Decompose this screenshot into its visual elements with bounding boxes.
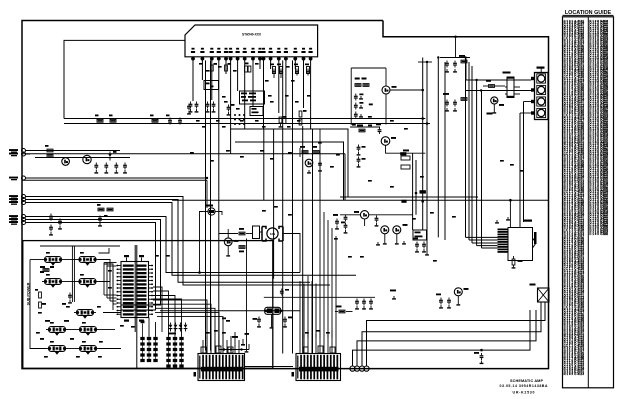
wires into connector CN602 <box>299 338 301 354</box>
sub power resistors column <box>39 292 42 298</box>
wire bus y142 below IC <box>235 142 344 200</box>
speaker wire bundle right <box>367 302 546 366</box>
wire bus y129 below IC <box>231 129 348 197</box>
component cluster x403 y160 <box>401 156 410 160</box>
wire right verticals x438 x445 <box>437 58 439 238</box>
wire y178 pair <box>26 177 208 179</box>
ground symbols Q502 Q503 <box>377 242 379 244</box>
capacitor C mid cluster <box>207 102 209 104</box>
capacitor cluster below IC pin1 <box>190 102 192 104</box>
electrolytic capacitors C pair 1 <box>273 69 275 71</box>
resistor R below pin3 <box>210 65 213 71</box>
wire bus y200 <box>172 199 549 201</box>
resistor cluster x360 y128 <box>359 129 365 132</box>
IC U301 decoupling marks top <box>124 255 129 257</box>
input port group3 pin2 <box>22 218 26 222</box>
transistor Q502 <box>381 226 389 234</box>
transistor Q601 <box>491 97 498 104</box>
ground pair right mid <box>496 220 498 222</box>
resistor R601 <box>489 85 495 88</box>
wire verticals connector2 area <box>299 281 301 338</box>
wire vertical through IC <box>134 245 136 332</box>
sub power wires <box>40 245 120 247</box>
capacitor trio x355-372 y300 <box>356 299 358 301</box>
regulator IC U601 tall box <box>507 78 514 98</box>
wire y310.8 between connectors <box>160 310 300 312</box>
wire right verticals x465-481 jack bundle <box>465 58 467 238</box>
svg-text:03.05.14 3954R1438BA: 03.05.14 3954R1438BA <box>500 384 548 388</box>
resistor array group B <box>166 337 170 340</box>
wire right top section <box>483 85 489 87</box>
transistor Q503 <box>393 226 401 234</box>
sub power small parts left column <box>40 266 45 268</box>
svg-text:R185: R185 <box>564 372 574 376</box>
wire y233 right of fan <box>283 234 300 273</box>
headphone jack JK701 <box>508 228 533 261</box>
fan motor M401 <box>262 227 266 230</box>
capacitor C input row <box>95 163 97 165</box>
electrolytic capacitors C pair 2 <box>296 69 298 71</box>
transistor pair group2 <box>79 257 96 263</box>
component on vertical x422 y192 <box>420 190 426 193</box>
resistor array group A <box>140 337 144 340</box>
capacitor C y213 cluster <box>50 214 52 216</box>
capacitor cluster top right B <box>446 100 448 102</box>
wire x412 pair <box>412 153 414 230</box>
transistor pair group5 <box>77 310 94 316</box>
capacitor cluster top right A <box>446 61 448 63</box>
resistor marks row y77-83 <box>355 78 360 80</box>
resistor R fan <box>239 232 245 235</box>
ground symbol near CN601 <box>242 339 244 344</box>
resistor R vertical right2 <box>299 111 302 117</box>
connector CN701 4pin <box>535 73 549 120</box>
capacitor C y219 mid <box>99 216 101 218</box>
wire right verticals from bus y118 <box>422 58 424 231</box>
input port group2 pin3 <box>22 201 26 205</box>
wire IC left boundary loop <box>64 40 185 118</box>
input port group2 pin1 <box>22 195 26 199</box>
capacitor C mid cluster base <box>345 215 347 217</box>
resistor R jack bottom <box>512 259 515 265</box>
wire y153.8 turn down to 200 <box>344 154 346 200</box>
capacitor boxes above CN602 <box>303 347 308 353</box>
wire horizontal y150.5 from port <box>26 150 121 152</box>
resistor R input <box>47 155 53 158</box>
wire jack top to bus y200 <box>509 200 511 227</box>
capacitors below y310.8 wire <box>258 317 260 319</box>
blob on bus y200 <box>401 200 406 203</box>
svg-text:FAN: FAN <box>270 232 275 236</box>
IC U101 pin junction dots <box>191 57 195 61</box>
location guide table frame <box>563 17 614 388</box>
sub circuit block with labels <box>240 91 265 104</box>
svg-text:STA540-XXX: STA540-XXX <box>242 33 262 37</box>
svg-text:SCHEMATIC AMP: SCHEMATIC AMP <box>510 379 543 383</box>
svg-text:C-4182: C-4182 <box>600 232 608 236</box>
wire horizontal y157.5 <box>35 157 130 159</box>
resistor blob on y153.8 wire <box>400 152 406 155</box>
wire bundle staircase lower turns <box>121 262 156 310</box>
connector CN602 mounting mark <box>292 372 295 377</box>
transistor pair group8 <box>49 346 66 352</box>
resistor R vertical right1 <box>279 117 282 123</box>
wires into connector CN601 <box>202 340 204 354</box>
wire horizontal bus y118-123 <box>64 118 425 120</box>
wire y68 top of upper mid cluster <box>351 67 386 69</box>
wires IC U301 left pins to bundle <box>104 294 117 296</box>
schematic sheet border <box>22 21 549 369</box>
IC U301 bottom marks <box>124 320 129 322</box>
input port AUX-L <box>22 149 26 153</box>
ground Q601 <box>493 104 495 110</box>
wire bus y197 <box>340 196 478 198</box>
sub circuit block 2 <box>250 107 263 116</box>
sub power vertical wires <box>71 246 73 302</box>
component box x413 y230 <box>413 230 427 240</box>
component cluster x335 y215 <box>333 214 338 216</box>
diode row above array B <box>169 325 173 328</box>
wire relay drop to ground <box>246 239 248 350</box>
capacitor boxes above CN601 <box>201 347 206 353</box>
relay RY401 box <box>253 226 260 239</box>
wire staircase CN601 feeds from IC U301 <box>153 300 207 354</box>
wire CN701 stub <box>540 68 542 73</box>
wire horizontal above CN601 with dots <box>219 349 249 351</box>
dual resistor component on y310.8 <box>265 307 281 314</box>
dot matrix component x234-244 y114-126 <box>234 114 236 116</box>
resistor pair below pin7 <box>245 66 248 72</box>
wire Q404 emitter down <box>385 94 387 125</box>
input port GND <box>22 176 26 180</box>
sub power nested wires right <box>99 248 110 253</box>
wire horizontal y153.8 long <box>22 153 345 155</box>
svg-text:UR-K2530: UR-K2530 <box>513 391 535 395</box>
transistor pair group7 <box>80 327 97 333</box>
input port group3 pin3 <box>22 221 26 225</box>
input port AUX-R <box>22 152 26 156</box>
microcontroller IC U301 vertical DIP <box>121 262 149 318</box>
wire verticals x520 x523 from CN701 to jack <box>519 113 521 228</box>
transistor Q402 fan driver <box>224 238 232 246</box>
component R x340 y310 <box>339 310 345 313</box>
capacitor C Q501 <box>376 216 378 218</box>
capacitor cluster x415 y245 <box>416 242 418 244</box>
svg-text:C-6113: C-6113 <box>574 372 584 376</box>
transistor Q501 <box>360 211 368 219</box>
wire x207 drop to LED cluster <box>206 180 208 208</box>
label blobs texture sub power and middle <box>46 252 50 254</box>
connector CN602 bottom right <box>296 354 341 381</box>
svg-text:C133: C133 <box>589 232 599 236</box>
bridge component X-box <box>538 288 550 302</box>
transistor Q702 <box>454 288 462 296</box>
resistor R below pin5 <box>225 65 228 71</box>
wire bus component resistors on bus <box>97 119 103 122</box>
wire Q404 to vertical x422 <box>390 89 423 91</box>
capacitor C x379 y130 <box>379 127 381 129</box>
transistor Q404 <box>382 86 390 94</box>
connector CN601 bottom left <box>198 354 245 381</box>
input port group2 pin2 <box>22 198 26 202</box>
resistor R y209 <box>98 208 104 211</box>
wire x350 cluster top <box>350 126 380 128</box>
wire Q405 to right <box>386 145 426 153</box>
IC U101 pin name labels <box>191 51 195 53</box>
power amp IC U101 STA540 <box>185 25 318 57</box>
SUB POWER enclosure box <box>23 241 273 369</box>
capacitor C row y100 <box>188 104 190 106</box>
capacitor column x355.8 <box>355 94 357 96</box>
capacitor stack x358 y148-160 <box>358 145 360 147</box>
label blobs texture below IC <box>199 63 203 65</box>
wire ground bus above border between connectors <box>245 366 294 368</box>
wire fan cluster <box>219 233 238 235</box>
wire mid cluster <box>340 214 360 216</box>
wire long vertical trunks from IC to bottom connectors <box>205 60 207 350</box>
wire x199.5 LED drop continues <box>199 234 201 273</box>
transistor pair group1 <box>45 257 62 263</box>
resistor R fan 2 <box>239 246 245 249</box>
wire y297.3 with cap trio <box>264 296 375 298</box>
wire bundle staircase from ports to lower section <box>26 197 184 263</box>
ground mark right of trio <box>393 296 395 298</box>
capacitor cluster x440 y300 <box>440 298 442 300</box>
transistor pair group9 <box>80 346 97 352</box>
wire IC U301 right pins to resistor arrays <box>153 287 162 332</box>
transistor pair group4 <box>79 279 96 285</box>
transistor Q405 <box>381 137 390 146</box>
transistor Q201 <box>62 158 70 166</box>
wire x320 trunk <box>319 129 321 200</box>
LED D401 with circle <box>208 208 215 215</box>
wire IC pin drops <box>192 59 194 101</box>
diode D input <box>108 154 112 157</box>
resistor pair x356 x364 <box>355 84 361 87</box>
wire jack leads <box>466 236 498 238</box>
transistor pair group6 <box>49 327 66 333</box>
transistor pair group3 <box>45 279 62 285</box>
input port group3 pin1 <box>22 215 26 219</box>
transistor Q202 <box>83 155 91 163</box>
vertical wire bundle left of IC U301 <box>103 263 105 296</box>
output terminal circles <box>350 366 355 371</box>
array group A top mark <box>141 321 145 324</box>
capacitor on speaker bundle wire x481 <box>480 349 483 352</box>
cluster x300-325 y148-172 <box>302 151 308 154</box>
connector CN601 mounting mark <box>194 372 197 377</box>
component box C-B below IC <box>204 81 219 90</box>
capacitor C mid cluster 2 <box>228 105 230 107</box>
wire IC U301 bottom to array A <box>148 318 150 337</box>
